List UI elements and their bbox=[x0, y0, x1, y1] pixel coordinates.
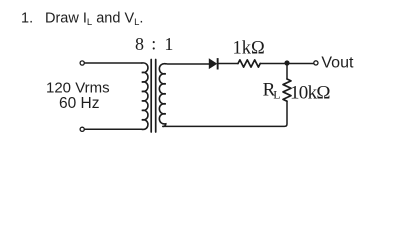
transformer secondary winding bbox=[159, 64, 165, 127]
wire secondary top bbox=[166, 63, 209, 65]
svg-text:1: 1 bbox=[164, 34, 173, 54]
svg-text:L: L bbox=[273, 87, 280, 101]
transformer core line 1 bbox=[150, 60, 152, 133]
Vout terminal circle bbox=[314, 61, 318, 65]
svg-text::: : bbox=[151, 34, 156, 54]
terminal top-left bbox=[80, 61, 84, 65]
diode (series rectifier) bbox=[209, 58, 219, 69]
svg-text:Vout: Vout bbox=[321, 54, 354, 71]
svg-text:60 Hz: 60 Hz bbox=[59, 95, 100, 112]
svg-text:10kΩ: 10kΩ bbox=[290, 82, 330, 103]
svg-text:8: 8 bbox=[135, 34, 144, 54]
wire diode to resistor bbox=[219, 63, 239, 65]
label 120 Vrms 60 Hz bbox=[46, 80, 110, 112]
wire resistor to Vout bbox=[260, 63, 314, 65]
wire primary bottom bbox=[85, 128, 142, 130]
wire junction down bbox=[286, 64, 288, 80]
title text "1. Draw IL and VL." bbox=[21, 11, 143, 29]
transformer core line 2 bbox=[155, 60, 157, 133]
svg-text:1kΩ: 1kΩ bbox=[233, 39, 265, 59]
transformer primary winding bbox=[142, 63, 148, 130]
wire RL bottom to rail bbox=[163, 101, 287, 126]
svg-text:1.: 1. bbox=[21, 11, 33, 27]
wire primary top bbox=[85, 62, 142, 64]
resistor RL 10kOhm zigzag vertical bbox=[283, 79, 291, 101]
resistor R1 1kOhm zigzag bbox=[238, 60, 260, 67]
label 8 : 1 (turns ratio) bbox=[135, 34, 173, 55]
junction node dot bbox=[284, 60, 289, 65]
terminal bottom-left bbox=[80, 127, 84, 131]
svg-text:Draw IL and VL.: Draw IL and VL. bbox=[45, 11, 143, 29]
